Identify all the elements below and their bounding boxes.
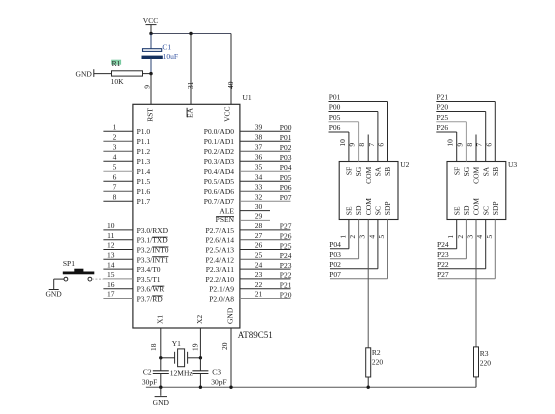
wire pin 35 net P04 <box>240 170 291 172</box>
wire to pin 9 RST <box>150 74 152 105</box>
junction R2/bus <box>367 386 370 389</box>
svg-text:220: 220 <box>372 357 384 366</box>
svg-text:25: 25 <box>255 251 263 260</box>
svg-text:38: 38 <box>255 132 263 141</box>
wire pin 22 net P21 <box>240 288 291 290</box>
wire U2 pin 1 stub <box>348 220 350 249</box>
svg-text:U3: U3 <box>508 160 517 169</box>
wire VCC stub <box>150 25 152 34</box>
wire pin 27 net P26 <box>240 239 291 241</box>
wire U3 pin 9 stub <box>465 122 467 162</box>
wire pin 7 P1.6 <box>103 190 132 192</box>
svg-text:Y1: Y1 <box>172 339 181 348</box>
svg-text:27: 27 <box>255 231 263 240</box>
wire net P05 (U2) <box>329 121 359 123</box>
wire pin 24 net P23 <box>240 268 291 270</box>
wire U2 pin 10 stub <box>348 132 350 162</box>
svg-text:4: 4 <box>367 235 376 239</box>
ground GND (reset) <box>93 69 95 77</box>
svg-text:SF: SF <box>345 167 354 175</box>
wire net P01 (U2) <box>329 101 388 103</box>
svg-text:10K: 10K <box>111 77 125 86</box>
svg-text:6: 6 <box>377 143 386 147</box>
svg-text:SP1: SP1 <box>63 259 75 268</box>
wire net P03 (U2) <box>330 258 359 260</box>
svg-text:U1: U1 <box>243 93 252 102</box>
wire pin 37 net P02 <box>240 150 291 152</box>
svg-text:P00: P00 <box>280 123 292 132</box>
wire net P27 (U3) <box>438 278 496 280</box>
svg-text:30pF: 30pF <box>211 377 226 386</box>
svg-text:SD: SD <box>462 205 471 215</box>
svg-text:3: 3 <box>358 235 367 239</box>
svg-text:30: 30 <box>255 202 263 211</box>
svg-text:P2.1/A9: P2.1/A9 <box>209 285 234 294</box>
svg-text:P05: P05 <box>329 113 341 122</box>
svg-text:P07: P07 <box>280 193 292 202</box>
svg-text:COM: COM <box>472 198 481 215</box>
wire U2 pin 4 stub <box>377 220 379 269</box>
svg-text:30pF: 30pF <box>142 377 157 386</box>
svg-text:29: 29 <box>255 212 263 221</box>
svg-text:1: 1 <box>113 122 117 131</box>
svg-text:P2.4/A12: P2.4/A12 <box>205 255 234 264</box>
svg-text:R2: R2 <box>372 348 381 357</box>
svg-text:P23: P23 <box>437 250 449 259</box>
svg-text:13: 13 <box>107 251 115 260</box>
svg-text:SC: SC <box>481 206 490 215</box>
svg-text:P21: P21 <box>437 93 449 102</box>
svg-text:P1.3: P1.3 <box>137 157 151 166</box>
svg-text:P00: P00 <box>329 103 341 112</box>
wire net P00 (U2) <box>329 111 378 113</box>
wire U3 pin 8 stub <box>475 135 477 162</box>
svg-text:14: 14 <box>107 260 115 269</box>
svg-text:R1: R1 <box>112 59 121 68</box>
svg-text:P2.2/A10: P2.2/A10 <box>205 275 234 284</box>
svg-text:9: 9 <box>348 143 357 147</box>
svg-text:P06: P06 <box>329 123 341 132</box>
svg-text:GND: GND <box>76 69 93 78</box>
svg-text:SDP: SDP <box>491 201 500 215</box>
wire pin 14 P3.4/T0 <box>103 268 132 270</box>
svg-text:AT89C51: AT89C51 <box>238 330 273 340</box>
wire pin 23 net P22 <box>240 278 291 280</box>
wire net P25 (U3) <box>436 121 466 123</box>
svg-text:28: 28 <box>255 221 263 230</box>
wire net P24 (U3) <box>438 248 457 250</box>
wire pin 26 net P25 <box>240 249 291 251</box>
svg-text:26: 26 <box>255 241 263 250</box>
wire U3 pin 7 stub <box>485 112 487 162</box>
svg-text:P2.5/A13: P2.5/A13 <box>205 246 234 255</box>
svg-text:4: 4 <box>113 152 117 161</box>
svg-text:32: 32 <box>255 192 263 201</box>
wire U2 pin 5 stub <box>387 220 389 279</box>
wire pin 16 P3.6/WR <box>103 288 132 290</box>
junction X1/C2 <box>159 356 162 359</box>
svg-text:37: 37 <box>255 142 263 151</box>
svg-text:2: 2 <box>348 235 357 239</box>
wire pin 32 net P07 <box>240 200 291 202</box>
capacitor C3 30pF <box>199 358 201 371</box>
svg-text:35: 35 <box>255 162 263 171</box>
wire net P26 (U3) <box>436 131 456 133</box>
svg-text:1: 1 <box>338 235 347 239</box>
svg-text:X1: X1 <box>155 315 164 324</box>
wire U3 COM to R3 <box>475 220 477 347</box>
wire ground bus <box>146 386 476 388</box>
svg-text:20: 20 <box>220 342 229 350</box>
wire pin 38 net P01 <box>240 140 291 142</box>
svg-text:P26: P26 <box>437 123 449 132</box>
svg-text:7: 7 <box>113 182 117 191</box>
svg-text:U2: U2 <box>400 160 409 169</box>
svg-text:SA: SA <box>374 166 383 176</box>
svg-text:8: 8 <box>465 143 474 147</box>
svg-text:31: 31 <box>186 81 195 89</box>
junction X2/C3 <box>199 356 202 359</box>
svg-text:5: 5 <box>485 235 494 239</box>
wire pin 20 GND <box>230 328 232 387</box>
junction RST node <box>149 72 152 75</box>
svg-text:220: 220 <box>480 358 492 367</box>
wire net P20 (U3) <box>436 111 485 113</box>
svg-text:21: 21 <box>255 290 263 299</box>
svg-text:P0.4/AD4: P0.4/AD4 <box>204 167 234 176</box>
svg-text:C3: C3 <box>212 367 221 376</box>
svg-text:COM: COM <box>472 166 481 183</box>
wire net P07 (U2) <box>330 278 388 280</box>
svg-text:P24: P24 <box>280 251 292 260</box>
svg-text:P1.1: P1.1 <box>137 137 151 146</box>
svg-text:12: 12 <box>107 241 115 250</box>
svg-text:P1.5: P1.5 <box>137 177 151 186</box>
svg-text:5: 5 <box>113 162 117 171</box>
svg-text:18: 18 <box>149 343 158 351</box>
svg-text:P3.5/T1: P3.5/T1 <box>137 275 161 284</box>
wire U3 pin 4 stub <box>485 220 487 269</box>
wire SP1 to pin 15 <box>92 278 104 280</box>
wire SP1 to ground <box>54 278 64 280</box>
svg-text:P01: P01 <box>280 133 292 142</box>
resistor R3 220 <box>474 347 479 377</box>
svg-text:SE: SE <box>452 206 461 215</box>
svg-text:39: 39 <box>255 122 263 131</box>
svg-text:7: 7 <box>475 143 484 147</box>
svg-text:1: 1 <box>446 235 455 239</box>
wire VCC rail <box>151 33 231 35</box>
junction C3/bus <box>199 386 202 389</box>
wire U3 pin 2 stub <box>465 220 467 259</box>
svg-text:P25: P25 <box>437 113 449 122</box>
svg-text:X2: X2 <box>195 315 204 324</box>
wire pin 6 P1.5 <box>103 180 132 182</box>
label R1 (highlighted) <box>112 60 121 64</box>
wire to pin 31 EA <box>190 34 192 105</box>
svg-text:GND: GND <box>226 307 235 324</box>
wire to pin 40 VCC <box>230 34 232 105</box>
ground GND (crystal) <box>160 387 162 396</box>
svg-text:15: 15 <box>107 270 115 279</box>
capacitor C2 30pF <box>160 358 162 371</box>
svg-text:40: 40 <box>226 81 235 89</box>
wire pin 34 net P05 <box>240 180 291 182</box>
svg-text:GND: GND <box>153 398 170 407</box>
svg-text:3: 3 <box>113 142 117 151</box>
svg-text:12MHz: 12MHz <box>170 368 194 377</box>
svg-text:P3.0/RXD: P3.0/RXD <box>137 226 169 235</box>
svg-text:P0.6/AD6: P0.6/AD6 <box>204 187 234 196</box>
junction pin20/bus <box>229 386 232 389</box>
wire pin 30 ALE <box>240 210 270 212</box>
wire U3 pin 5 stub <box>494 220 496 279</box>
svg-text:P06: P06 <box>280 183 292 192</box>
wire net P21 (U3) <box>436 101 495 103</box>
svg-text:P25: P25 <box>280 241 292 250</box>
svg-text:SDP: SDP <box>383 201 392 215</box>
wire pin 28 net P27 <box>240 229 291 231</box>
svg-text:P1.6: P1.6 <box>137 187 151 196</box>
svg-text:P22: P22 <box>280 271 292 280</box>
svg-text:P0.1/AD1: P0.1/AD1 <box>204 137 234 146</box>
svg-text:P0.7/AD7: P0.7/AD7 <box>204 197 234 206</box>
wire pin 2 P1.1 <box>103 140 132 142</box>
svg-text:P2.6/A14: P2.6/A14 <box>205 236 234 245</box>
svg-text:P2.7/A15: P2.7/A15 <box>205 226 234 235</box>
svg-text:C1: C1 <box>162 43 171 52</box>
svg-text:SG: SG <box>354 166 363 176</box>
svg-text:P07: P07 <box>329 270 341 279</box>
wire pin 19 X2 <box>199 328 201 358</box>
svg-text:P26: P26 <box>280 232 292 241</box>
svg-text:P0.2/AD2: P0.2/AD2 <box>204 147 234 156</box>
svg-text:16: 16 <box>107 280 115 289</box>
wire U2 pin 7 stub <box>377 112 379 162</box>
IC U1 AT89C51 body <box>133 104 240 328</box>
svg-text:VCC: VCC <box>223 107 232 122</box>
svg-text:COM: COM <box>364 198 373 215</box>
wire R1 to RST node <box>143 73 152 75</box>
wire U2 pin 8 stub <box>367 135 369 162</box>
wire U2 pin 2 stub <box>358 220 360 259</box>
svg-text:P24: P24 <box>437 240 449 249</box>
wire pin 13 P3.3/INT1 <box>103 258 132 260</box>
svg-text:23: 23 <box>255 270 263 279</box>
junction EA branch <box>189 32 192 35</box>
svg-text:P20: P20 <box>437 103 449 112</box>
svg-text:36: 36 <box>255 152 263 161</box>
svg-text:P27: P27 <box>280 222 292 231</box>
svg-text:RST: RST <box>146 108 155 122</box>
svg-text:VCC: VCC <box>143 16 158 25</box>
ground GND (switch) <box>49 289 59 291</box>
wire pin 11 P3.1/TXD <box>103 239 132 241</box>
display U3 body <box>447 162 506 220</box>
wire U2 COM to R2 <box>367 220 369 348</box>
svg-text:SG: SG <box>462 166 471 176</box>
svg-text:P1.0: P1.0 <box>137 127 151 136</box>
wire U2 pin 6 stub <box>387 102 389 162</box>
svg-text:SE: SE <box>345 206 354 215</box>
svg-text:9: 9 <box>143 85 152 89</box>
svg-text:33: 33 <box>255 182 263 191</box>
wire pin 25 net P24 <box>240 258 291 260</box>
svg-text:7: 7 <box>367 143 376 147</box>
svg-text:P20: P20 <box>280 290 292 299</box>
svg-text:SA: SA <box>481 166 490 176</box>
wire pin 36 net P03 <box>240 160 291 162</box>
svg-text:22: 22 <box>255 280 263 289</box>
svg-text:P2.0/A8: P2.0/A8 <box>209 295 234 304</box>
svg-text:5: 5 <box>377 235 386 239</box>
resistor R2 220 <box>366 348 371 377</box>
svg-text:4: 4 <box>475 235 484 239</box>
svg-text:P05: P05 <box>280 173 292 182</box>
svg-text:3: 3 <box>466 235 475 239</box>
svg-text:P0.0/AD0: P0.0/AD0 <box>204 127 234 136</box>
svg-text:2: 2 <box>113 132 117 141</box>
svg-text:P1.7: P1.7 <box>137 197 151 206</box>
svg-text:2: 2 <box>456 235 465 239</box>
svg-text:34: 34 <box>255 172 263 181</box>
svg-text:P27: P27 <box>437 270 449 279</box>
wire U2 pin 9 stub <box>358 122 360 162</box>
wire pin 4 P1.3 <box>103 160 132 162</box>
svg-text:R3: R3 <box>480 349 489 358</box>
svg-text:8: 8 <box>113 192 117 201</box>
svg-text:11: 11 <box>107 231 114 240</box>
svg-text:P22: P22 <box>437 260 449 269</box>
svg-text:P21: P21 <box>280 281 292 290</box>
wire pin 15 P3.5/T1 <box>103 278 132 280</box>
svg-text:P03: P03 <box>280 153 292 162</box>
wire pin 12 P3.2/INT0 <box>103 249 132 251</box>
junction C2/bus <box>159 386 162 389</box>
svg-text:P02: P02 <box>280 143 292 152</box>
svg-text:6: 6 <box>113 172 117 181</box>
wire pin 29 PSEN <box>240 219 270 221</box>
display U2 body <box>339 162 398 220</box>
svg-text:SF: SF <box>452 167 461 175</box>
svg-text:P3.4/T0: P3.4/T0 <box>137 265 161 274</box>
wire net P04 (U2) <box>330 248 349 250</box>
wire pin 21 net P20 <box>240 298 291 300</box>
svg-text:P1.4: P1.4 <box>137 167 151 176</box>
junction VCC/C1 <box>149 32 152 35</box>
wire pin 33 net P06 <box>240 190 291 192</box>
svg-text:10: 10 <box>107 221 115 230</box>
svg-text:P04: P04 <box>329 240 341 249</box>
wire R2 to bus <box>367 377 369 387</box>
svg-text:P02: P02 <box>329 260 341 269</box>
svg-text:17: 17 <box>107 290 115 299</box>
svg-text:10: 10 <box>446 139 455 147</box>
svg-text:SC: SC <box>374 206 383 215</box>
resistor R1 10K <box>112 71 143 76</box>
svg-text:10uF: 10uF <box>163 52 178 61</box>
svg-text:P23: P23 <box>280 261 292 270</box>
wire R3 to bus <box>475 377 477 387</box>
svg-text:P2.3/A11: P2.3/A11 <box>206 265 235 274</box>
wire net P02 (U2) <box>330 268 378 270</box>
wire pin 39 net P00 <box>240 130 291 132</box>
svg-text:P01: P01 <box>329 93 341 102</box>
wire net P22 (U3) <box>438 268 486 270</box>
svg-text:GND: GND <box>45 290 62 299</box>
svg-text:6: 6 <box>484 143 493 147</box>
wire pin 8 P1.7 <box>103 200 132 202</box>
svg-text:SB: SB <box>491 167 500 176</box>
svg-text:P0.3/AD3: P0.3/AD3 <box>204 157 234 166</box>
wire pin 18 X1 <box>160 328 162 358</box>
svg-text:SD: SD <box>354 205 363 215</box>
svg-text:P0.5/AD5: P0.5/AD5 <box>204 177 234 186</box>
svg-text:P04: P04 <box>280 163 292 172</box>
wire net P23 (U3) <box>438 258 467 260</box>
svg-text:P03: P03 <box>329 250 341 259</box>
wire pin 10 P3.0/RXD <box>103 229 132 231</box>
svg-text:9: 9 <box>455 143 464 147</box>
wire U3 pin 6 stub <box>494 102 496 162</box>
svg-text:P1.2: P1.2 <box>137 147 151 156</box>
wire pin 3 P1.2 <box>103 150 132 152</box>
svg-text:8: 8 <box>357 143 366 147</box>
svg-text:COM: COM <box>364 166 373 183</box>
svg-text:24: 24 <box>255 260 263 269</box>
wire U3 pin 10 stub <box>456 132 458 162</box>
capacitor C1 10uF <box>150 34 152 49</box>
svg-text:C2: C2 <box>143 367 152 376</box>
svg-text:SB: SB <box>383 167 392 176</box>
svg-text:19: 19 <box>190 343 199 351</box>
svg-text:10: 10 <box>338 139 347 147</box>
wire pin 1 P1.0 <box>103 130 132 132</box>
wire pin 17 P3.7/RD <box>103 298 132 300</box>
wire pin 5 P1.4 <box>103 170 132 172</box>
wire net P06 (U2) <box>329 131 349 133</box>
wire U3 pin 1 stub <box>456 220 458 249</box>
